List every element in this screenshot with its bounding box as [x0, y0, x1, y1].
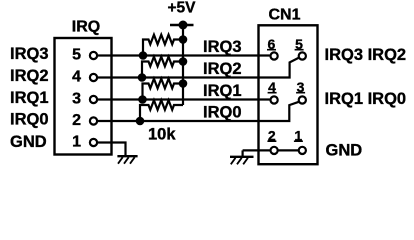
wire GND (ground to CN1 pin2): [243, 149, 270, 151]
svg-text:IRQ0: IRQ0: [203, 104, 242, 122]
wire IRQ1 (pin3 to CN1 pin4): [97, 98, 270, 100]
svg-text:IRQ2: IRQ2: [203, 60, 242, 78]
svg-text:+5V: +5V: [167, 0, 196, 16]
svg-text:IRQ3: IRQ3: [203, 38, 242, 56]
pin 1 circle: [90, 139, 97, 146]
svg-text:IRQ: IRQ: [72, 19, 100, 36]
pin 5 circle: [90, 52, 97, 59]
svg-text:IRQ1 IRQ0: IRQ1 IRQ0: [325, 90, 407, 108]
node IRQ1/R3 junction: [138, 95, 147, 104]
pin 3 circle: [90, 96, 97, 103]
svg-text:GND: GND: [10, 133, 47, 151]
ground (left, below IRQ box): [117, 156, 137, 164]
resistor R3 (pull-up IRQ1): [143, 79, 184, 100]
svg-text:4: 4: [72, 69, 81, 86]
svg-text:IRQ3: IRQ3: [10, 45, 49, 63]
node rail/R2 junction: [179, 57, 188, 66]
CN1 pin 6 circle: [271, 52, 278, 59]
node rail/R1 junction: [179, 35, 188, 44]
wire IRQ0 (pin2 to CN1 pin3, with jog): [97, 102, 298, 121]
resistor R1 (pull-up IRQ3): [143, 35, 183, 56]
power +5V bar: [170, 24, 194, 27]
wire IRQ2 (pin4 to CN1 pin5, with jog): [97, 58, 298, 78]
wire CN1 pin2 to pin1: [278, 149, 298, 151]
pin 2 circle: [90, 117, 97, 124]
CN1 pin 4 circle: [271, 96, 278, 103]
wire +5V rail: [182, 25, 184, 105]
svg-text:GND: GND: [326, 141, 363, 159]
CN1 pin 5 circle: [299, 52, 306, 59]
svg-text:1: 1: [72, 134, 81, 151]
svg-text:IRQ2: IRQ2: [10, 67, 49, 85]
wire ground stub: [242, 150, 244, 156]
wire GND (pin1 to ground): [97, 143, 125, 156]
svg-text:2: 2: [72, 112, 81, 129]
svg-text:10k: 10k: [148, 126, 176, 144]
node IRQ3/R1 junction: [139, 51, 148, 60]
svg-text:CN1: CN1: [268, 6, 300, 23]
wire IRQ3 (pin5 to CN1 pin6): [97, 54, 270, 56]
CN1 pin 3 circle: [299, 96, 306, 103]
CN1 pin 2 circle: [271, 147, 278, 154]
node IRQ0/R4 junction: [136, 117, 145, 126]
svg-text:5: 5: [72, 47, 81, 64]
connector CN1 box: [259, 25, 318, 164]
svg-text:IRQ1: IRQ1: [203, 82, 242, 100]
node rail/R3 junction: [179, 79, 188, 88]
pin 4 circle: [90, 74, 97, 81]
node IRQ2/R2 junction: [138, 73, 147, 82]
ground (right, at CN1): [230, 157, 254, 165]
svg-text:3: 3: [72, 91, 81, 108]
svg-text:IRQ0: IRQ0: [10, 111, 49, 129]
resistor R4 (pull-up IRQ0): [140, 100, 183, 121]
connector IRQ box: [55, 38, 112, 155]
resistor R2 (pull-up IRQ2): [142, 57, 183, 78]
CN1 pin 1 circle: [299, 147, 306, 154]
svg-text:IRQ3 IRQ2: IRQ3 IRQ2: [325, 46, 407, 64]
svg-text:IRQ1: IRQ1: [10, 89, 49, 107]
node +5V dot: [179, 21, 188, 30]
